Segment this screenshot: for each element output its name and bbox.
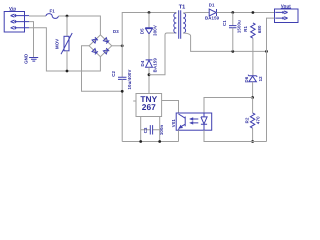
svg-text:Vin: Vin [9, 6, 16, 11]
capacitor C1 [232, 13, 234, 26]
diode D4 [146, 60, 153, 67]
diode D1 [209, 9, 216, 16]
wire: R1 bottom to D6 [252, 38, 254, 76]
node: source on rail [139, 140, 142, 143]
node: C1 top [231, 11, 234, 14]
Vout pin 2 arrow [275, 17, 287, 20]
wire: D4 anode to drain node [148, 67, 150, 93]
capacitor C3 [141, 129, 160, 131]
svg-text:C2: C2 [111, 70, 116, 76]
wire: secondary top to D1 [183, 12, 209, 15]
node: Vout minus junction [265, 50, 268, 53]
wire: secondary bottom [183, 33, 266, 51]
wire: Vout minus [267, 18, 275, 141]
wire: D5 top lead [148, 13, 150, 28]
diode D5 clamp [145, 28, 153, 34]
svg-text:470: 470 [256, 116, 261, 124]
wire: EN pin to opto collector [162, 101, 179, 114]
svg-text:V01: V01 [171, 119, 176, 128]
svg-text:R1: R1 [243, 25, 248, 31]
pin 1 arrow [11, 14, 29, 17]
node: MOV bottom junction [66, 70, 69, 73]
svg-text:D5: D5 [140, 28, 145, 34]
ground [29, 58, 38, 62]
svg-text:100n: 100n [159, 124, 164, 135]
wire: connector pin1 to fuse [29, 15, 46, 17]
T1 primary winding [174, 13, 176, 33]
pin 2 arrow [11, 20, 29, 23]
wire: pin2 to ground [29, 22, 34, 58]
opto coupling arrows [192, 119, 198, 123]
bridge diode bottom-right [103, 48, 109, 54]
wire: D5 to D4 [148, 34, 150, 60]
zener D6 [248, 75, 257, 82]
resistor R1 [251, 23, 255, 38]
node: MOV top junction [66, 15, 69, 18]
node: drain junction [148, 73, 151, 76]
capacitor C2 [118, 77, 127, 79]
wire: pin3 to AC bottom rail [29, 28, 100, 71]
wire: fuse to bridge top [58, 16, 100, 35]
svg-text:R2: R2 [245, 117, 250, 123]
wire: MOV bottom lead [66, 51, 68, 71]
wire: D6 to feedback node [252, 82, 254, 98]
svg-text:D1: D1 [209, 2, 215, 7]
wire: secondary ground rail [204, 130, 267, 141]
wire: DC+ vertical and top rail [122, 13, 176, 78]
svg-text:T1: T1 [179, 4, 186, 10]
bridge diode top-right [103, 38, 109, 44]
T1 secondary winding [183, 13, 186, 33]
IC U1 TNY267 [136, 94, 162, 117]
node: feedback junction [251, 96, 254, 99]
svg-text:300V: 300V [152, 25, 157, 36]
svg-text:C3: C3 [143, 127, 148, 133]
node: D5 top [148, 11, 151, 14]
node: C2 bottom junction [121, 90, 124, 93]
svg-text:Vout: Vout [281, 3, 291, 8]
resistor R2 [252, 98, 254, 113]
Vout pin 1 arrow [275, 11, 287, 14]
wire: feedback to opto anode [204, 98, 253, 114]
bridge rectifier D3 [89, 35, 112, 57]
wire: MOV top lead [66, 16, 68, 36]
bridge diode top-left [92, 37, 98, 43]
svg-text:D3: D3 [113, 29, 119, 34]
wire: bridge minus to C2 bottom [82, 46, 123, 92]
wire: source pin to rail [140, 117, 142, 142]
svg-text:GND: GND [23, 54, 28, 64]
svg-text:F1: F1 [50, 8, 56, 13]
fuse F1 [46, 14, 58, 19]
wire: bridge plus to DC node [112, 45, 123, 47]
svg-text:MOV: MOV [55, 39, 60, 49]
node: DC+ junction [121, 44, 124, 47]
node: bypass on rail [158, 140, 161, 143]
node: R1 top [252, 11, 255, 14]
opto LED [201, 113, 207, 130]
wire: opto emitter to rail [178, 130, 180, 141]
svg-text:680: 680 [257, 25, 262, 33]
bridge diode bottom-left [92, 49, 98, 55]
wire: D1 to Vout rail [217, 12, 275, 14]
wire: C2 bottom to primary ground rail [121, 79, 123, 141]
wire: bypass pin to rail [159, 117, 161, 142]
svg-text:1500u: 1500u [236, 20, 241, 33]
node: R2 bottom [251, 140, 254, 143]
svg-text:D4: D4 [140, 60, 145, 66]
node: C1 bottom [231, 50, 234, 53]
opto transistor [179, 114, 186, 130]
svg-text:C1: C1 [222, 20, 227, 26]
varistor MOV [64, 36, 69, 51]
svg-text:12: 12 [258, 76, 263, 82]
optocoupler VO1 [176, 113, 212, 130]
pin 3 arrow [11, 26, 29, 29]
svg-text:10u/400V: 10u/400V [127, 69, 132, 89]
svg-text:267: 267 [142, 102, 156, 112]
T1 core [179, 10, 181, 39]
wire: primary ground rail [122, 141, 178, 143]
svg-text:BA159: BA159 [152, 58, 157, 73]
svg-text:D6: D6 [244, 76, 249, 82]
wire: drain node to primary bottom [149, 33, 176, 75]
svg-text:BA159: BA159 [205, 16, 220, 21]
